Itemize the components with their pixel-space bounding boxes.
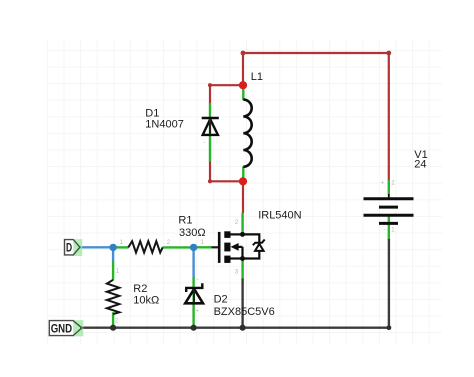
pin Q1 gate (green) [195, 246, 212, 248]
svg-text:D: D [66, 240, 72, 254]
svg-text:R2: R2 [133, 283, 147, 295]
svg-text:-: - [197, 277, 199, 283]
pin V1 positive (green) [388, 180, 390, 195]
port D highlight [73, 239, 82, 256]
svg-text:+: + [381, 181, 385, 187]
body diode triangle [255, 244, 264, 251]
wire gate node to D2 (blue) [192, 247, 194, 278]
wire parallel top rail (red) [210, 84, 243, 86]
wire ground rail (dark) [80, 327, 389, 329]
pin V1 negative (green) [388, 217, 390, 240]
wire from top rail down to node A (red) [242, 53, 244, 85]
junction gate node 1 (blue dot) [109, 244, 116, 251]
svg-text:L1: L1 [251, 71, 263, 83]
body diode cathode bar [253, 240, 265, 246]
resistor R2 [107, 280, 119, 314]
inductor L1 [243, 100, 251, 167]
wire right vertical to battery + (red) [388, 53, 390, 181]
wire Q1 source to ground rail (dark) [241, 279, 243, 328]
corner dot D1 top (red) [208, 83, 212, 87]
zener diode D2 [185, 283, 203, 303]
wire D1 top lead (red) [209, 85, 211, 104]
corner dot top left (red) [241, 51, 246, 56]
source node dot [240, 256, 245, 261]
gate bar [218, 232, 221, 263]
wire top rail +V (red) [243, 52, 389, 54]
junction node A (red dot) [239, 81, 247, 89]
pin L1 top (green) [242, 87, 244, 101]
pin Q1 drain (green) [241, 213, 243, 233]
svg-text:-: - [203, 140, 205, 146]
pin R1 left (green) [115, 246, 129, 248]
wire D input to node (blue) [80, 246, 113, 248]
corner battery-ground (dark dot) [387, 325, 392, 330]
wire gate lead (dark) [212, 246, 220, 248]
pin L1 bottom (green) [242, 167, 244, 181]
port GND flag [49, 321, 73, 336]
junction source-ground (dark dot) [240, 325, 246, 331]
body vertical [241, 247, 243, 259]
pin R1 right (green) [162, 246, 192, 248]
svg-text:24: 24 [414, 159, 426, 171]
source link [230, 257, 242, 259]
wire parallel bottom rail (red) [210, 180, 243, 182]
resistor R1 [128, 241, 162, 252]
svg-text:330Ω: 330Ω [179, 227, 206, 239]
wire node to R2 (blue) [112, 247, 114, 261]
pin D2 cathode (green) [192, 277, 194, 327]
svg-text:10kΩ: 10kΩ [133, 294, 159, 306]
corner dot D1 bottom (red) [208, 179, 212, 183]
body diode bottom lead [243, 251, 260, 259]
pin R2 bottom (green) [112, 312, 114, 326]
pin Q1 source (green) [241, 259, 243, 280]
drain link [230, 233, 242, 235]
junction node B (red dot) [239, 177, 247, 185]
pin R2 top (green) [112, 260, 114, 280]
svg-text:1N4007: 1N4007 [145, 118, 184, 130]
junction R2-ground (dark dot) [110, 325, 116, 331]
mosfet Q1 IRL540N [219, 231, 265, 263]
svg-text:+: + [196, 309, 200, 315]
svg-text:GND: GND [51, 321, 73, 335]
arrow [231, 243, 239, 251]
wire D1 bottom lead (red) [209, 161, 211, 182]
pin D1 cathode (green) [209, 103, 211, 162]
corner dot top right (red) [386, 51, 391, 56]
battery V1 [364, 194, 414, 223]
port GND highlight [73, 320, 83, 336]
drain node dot [240, 232, 245, 237]
wire node B down to Q1 drain (red) [242, 181, 244, 213]
svg-text:-: - [384, 227, 386, 233]
junction D2-ground (dark dot) [191, 325, 197, 331]
svg-text:D2: D2 [214, 293, 228, 305]
junction gate node 2 (blue dot) [190, 244, 197, 251]
channel pads [224, 231, 230, 238]
diode D1 [202, 118, 219, 135]
svg-text:R1: R1 [178, 215, 192, 227]
body diode top lead [243, 234, 260, 242]
svg-text:BZX85C5V6: BZX85C5V6 [214, 306, 275, 318]
wire battery negative down (dark) [388, 239, 390, 328]
svg-text:IRL540N: IRL540N [258, 210, 301, 222]
port D flag [65, 240, 74, 255]
